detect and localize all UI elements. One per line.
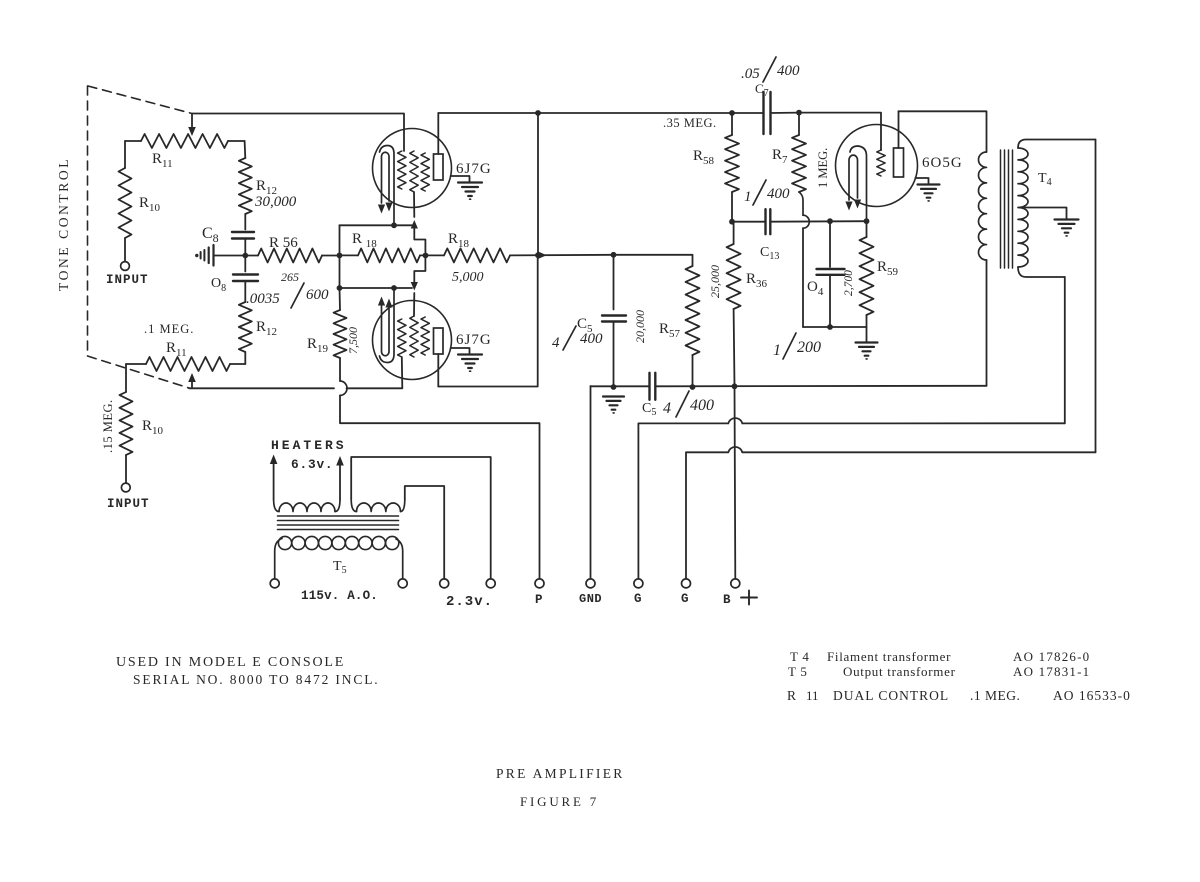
- V3 cathode: [850, 146, 867, 221]
- V1 label: [456, 161, 492, 177]
- tube V3 envelope: [836, 125, 918, 207]
- resistor R7: [772, 113, 830, 192]
- V3 label: [922, 155, 963, 171]
- resistor R10 upper: [119, 141, 161, 262]
- ground at R59: [856, 343, 878, 359]
- T5 core: [278, 516, 399, 530]
- V2 ground: [451, 348, 482, 371]
- svg-text:.35 MEG.: .35 MEG.: [663, 116, 717, 130]
- tube V2 envelope: [373, 301, 452, 380]
- V2 cathode: [380, 290, 395, 363]
- svg-text:.05: .05: [741, 66, 760, 82]
- resistor R12 lower: [239, 302, 277, 364]
- T4 primary: [978, 152, 986, 386]
- V2 grid cap arrow: [411, 258, 426, 291]
- svg-text:2.3v.: 2.3v.: [446, 594, 493, 610]
- node C4 bottom: [827, 324, 833, 330]
- node R56/R18: [337, 253, 343, 259]
- wire B+ drop: [734, 386, 737, 579]
- svg-text:G: G: [681, 592, 689, 606]
- V1 grid 2: [410, 151, 418, 217]
- T5 label: [301, 559, 378, 603]
- terminal B+: [723, 579, 757, 607]
- svg-text:GND: GND: [579, 592, 602, 606]
- value 1/200: [773, 333, 821, 359]
- svg-text:11: 11: [806, 688, 819, 703]
- svg-text:T 4: T 4: [790, 649, 810, 664]
- svg-text:R 56: R 56: [269, 235, 298, 251]
- svg-text:USED IN MODEL E CONSOLE: USED IN MODEL E CONSOLE: [116, 655, 345, 670]
- svg-text:4: 4: [663, 400, 671, 417]
- potentiometer R11 upper: [125, 134, 245, 170]
- terminal 2.3v b: [486, 579, 495, 588]
- node top rail x538: [535, 110, 541, 116]
- potentiometer R11 lower: [126, 322, 245, 371]
- svg-text:6.3v.: 6.3v.: [291, 457, 333, 472]
- svg-text:1: 1: [744, 189, 752, 205]
- wire hop R19 over grid line: [340, 381, 347, 395]
- resistor R10 lower: [101, 364, 164, 483]
- value 1/400: [744, 180, 790, 205]
- capacitor O8: [211, 256, 329, 309]
- V2 grid 3: [421, 317, 429, 355]
- T4 secondary: [1018, 140, 1096, 278]
- terminal GND: [579, 579, 602, 606]
- node C8/O8 junction: [242, 253, 248, 259]
- svg-text:R: R: [787, 688, 796, 703]
- node C4 top: [827, 218, 833, 224]
- svg-text:400: 400: [777, 63, 800, 79]
- wire B+ rail: [591, 385, 987, 388]
- svg-text:G: G: [634, 592, 642, 606]
- svg-text:6J7G: 6J7G: [456, 161, 492, 177]
- wiper arrow R11 lower: [188, 373, 196, 388]
- tone control dashed boundary: [88, 86, 193, 388]
- wire T4 secondary top run: [1095, 140, 1097, 453]
- T5 primary winding: [275, 536, 403, 578]
- svg-text:DUAL CONTROL: DUAL CONTROL: [833, 688, 949, 703]
- terminal G1: [634, 579, 643, 606]
- capacitor C5 b: [642, 373, 714, 418]
- T5 heater arrows: [270, 455, 344, 500]
- terminal T5 left: [270, 579, 279, 588]
- svg-text:.15 MEG.: .15 MEG.: [101, 399, 115, 453]
- svg-text:Filament transformer: Filament transformer: [827, 649, 951, 664]
- svg-text:FIGURE 7: FIGURE 7: [520, 794, 599, 809]
- V1 ground: [451, 176, 482, 199]
- R7 lower lead with hop: [799, 192, 809, 327]
- svg-text:PRE AMPLIFIER: PRE AMPLIFIER: [496, 766, 625, 781]
- svg-text:.0035: .0035: [246, 291, 280, 307]
- V1 heater hairpin: [378, 152, 393, 213]
- node plate rail top: [535, 252, 546, 259]
- svg-text:7,500: 7,500: [346, 327, 360, 354]
- svg-text:400: 400: [690, 397, 714, 414]
- V2 grid 2: [410, 293, 418, 357]
- V3 ground: [915, 178, 939, 201]
- V1 cathode wire: [340, 222, 413, 228]
- svg-text:115v. A.O.: 115v. A.O.: [301, 589, 378, 603]
- T5 winding 2.3v: [351, 457, 491, 579]
- capacitor C4: [807, 221, 855, 327]
- svg-text:T 5: T 5: [788, 664, 808, 679]
- capacitor C5 a: [552, 255, 626, 387]
- V2 plate: [434, 328, 444, 387]
- wire grid line V3: [732, 220, 867, 223]
- terminal 2.3v a: [440, 579, 493, 610]
- svg-text:AO 16533-0: AO 16533-0: [1053, 688, 1131, 703]
- node R7 top: [796, 110, 802, 116]
- wire GND drop: [590, 386, 592, 579]
- V2 label: [456, 332, 492, 348]
- svg-text:2,700: 2,700: [843, 270, 855, 296]
- title: [496, 766, 625, 809]
- svg-text:B: B: [723, 593, 731, 607]
- resistor R12 upper: [239, 141, 297, 230]
- capacitor C13: [760, 209, 779, 262]
- input terminal J1: [106, 262, 149, 287]
- svg-text:30,000: 30,000: [254, 194, 297, 210]
- wire to P terminal: [340, 395, 540, 578]
- tube V1 envelope: [373, 129, 452, 208]
- resistor R56: [245, 235, 339, 284]
- wire B+ top rail: [438, 113, 881, 150]
- wire G2 line: [686, 447, 1096, 579]
- svg-text:SERIAL NO. 8000 TO 8472 INCL.: SERIAL NO. 8000 TO 8472 INCL.: [133, 672, 380, 687]
- chassis ground at C8 junction: [195, 245, 242, 266]
- svg-text:.1 MEG.: .1 MEG.: [144, 322, 194, 336]
- wire left vertical upper: [339, 225, 341, 288]
- svg-text:HEATERS: HEATERS: [271, 438, 347, 453]
- wiper arrow R11 upper: [188, 114, 196, 136]
- svg-text:6J7G: 6J7G: [456, 332, 492, 348]
- svg-text:INPUT: INPUT: [106, 273, 149, 287]
- resistor R59: [860, 221, 899, 327]
- node R18/R18 grid junction: [423, 253, 429, 259]
- svg-text:1 MEG.: 1 MEG.: [816, 148, 830, 188]
- wire G1 line: [638, 418, 1064, 579]
- svg-text:4: 4: [552, 335, 560, 351]
- node C5a bottom: [611, 384, 617, 390]
- svg-text:5,000: 5,000: [452, 270, 484, 285]
- terminal T5 right: [398, 579, 407, 588]
- resistor R58: [663, 113, 739, 222]
- T5 winding 6.3v: [274, 499, 340, 512]
- svg-text:AO 17831-1: AO 17831-1: [1013, 664, 1090, 679]
- capacitor C8: [202, 225, 254, 256]
- node R57 bottom: [690, 384, 696, 390]
- svg-text:.1 MEG.: .1 MEG.: [970, 688, 1020, 703]
- parts list: [787, 649, 1131, 703]
- T4 center tap ground: [1025, 208, 1079, 236]
- svg-text:20,000: 20,000: [633, 310, 647, 343]
- svg-text:600: 600: [306, 287, 329, 303]
- svg-text:1: 1: [773, 342, 781, 359]
- resistor R18 right 5000: [426, 231, 614, 285]
- wire rail to V1 grid: [192, 114, 404, 152]
- V2 grid 1: [398, 319, 406, 388]
- svg-text:400: 400: [767, 186, 790, 202]
- V1 plate: [434, 113, 444, 180]
- svg-text:AO 17826-0: AO 17826-0: [1013, 649, 1090, 664]
- heaters label: [271, 438, 347, 472]
- V1 grid 3: [421, 153, 429, 191]
- V2 cathode wire: [337, 285, 412, 291]
- node C5a top: [611, 252, 617, 258]
- V1 cathode: [380, 146, 395, 223]
- V1 grid 1: [398, 151, 406, 189]
- svg-text:25,000: 25,000: [708, 265, 722, 298]
- svg-text:P: P: [535, 593, 543, 607]
- resistor R19: [307, 288, 360, 381]
- T4 core: [1001, 150, 1013, 268]
- input terminal J2: [107, 483, 150, 511]
- caption used in: [116, 655, 380, 687]
- terminal P: [535, 579, 544, 607]
- svg-text:TONE CONTROL: TONE CONTROL: [56, 157, 71, 291]
- tone control label: [56, 157, 71, 291]
- wire T4 secondary bottom run: [1064, 277, 1066, 423]
- node B+ rail R36: [732, 383, 738, 389]
- svg-text:265: 265: [281, 270, 299, 284]
- node R58 bottom: [729, 219, 735, 225]
- wire V3 plate to T4: [899, 111, 987, 152]
- V3 heater hairpin: [845, 155, 861, 210]
- node R58 top: [729, 110, 735, 116]
- svg-text:INPUT: INPUT: [107, 497, 150, 511]
- svg-text:200: 200: [797, 339, 821, 356]
- V3 grid: [877, 150, 885, 176]
- value 20000: [633, 310, 647, 343]
- terminal G2: [681, 579, 691, 606]
- V1 grid cap arrow: [411, 220, 426, 252]
- wire plate-rail riser: [537, 113, 539, 255]
- svg-text:6O5G: 6O5G: [922, 155, 963, 171]
- resistor R57: [614, 255, 700, 387]
- wire V2 grid line: [189, 387, 402, 389]
- V2 heater hairpin: [378, 297, 393, 356]
- resistor R18 left: [340, 231, 426, 262]
- wire cathode bottom: [803, 327, 867, 342]
- svg-text:400: 400: [580, 331, 603, 347]
- node R59 top: [864, 218, 870, 224]
- ground at C5a: [603, 397, 624, 413]
- wire V2 plate rail: [438, 255, 537, 386]
- svg-text:Output transformer: Output transformer: [843, 664, 956, 679]
- resistor R36: [708, 222, 768, 387]
- V3 plate: [894, 111, 904, 177]
- capacitor C7: [741, 57, 800, 134]
